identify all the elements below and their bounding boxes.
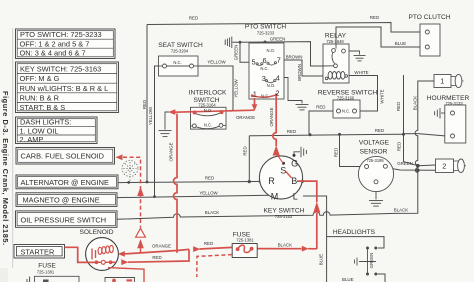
svg-text:RED: RED <box>287 129 296 134</box>
ground left of hourmeter <box>435 108 445 119</box>
svg-text:5: 5 <box>252 58 256 67</box>
node voltage sensor feed <box>338 133 341 136</box>
dotted dash light bulb <box>122 161 138 183</box>
svg-text:N.C.: N.C. <box>204 122 212 127</box>
red fuse element <box>232 244 257 258</box>
wire red key switch B feed <box>297 181 317 202</box>
voltage sensor circle <box>358 156 393 191</box>
svg-text:725-3133: 725-3133 <box>445 101 463 106</box>
svg-text:N.O.: N.O. <box>267 83 276 88</box>
wire GREEN voltage sensor to fuse 2 <box>387 168 435 170</box>
svg-text:725-3204: 725-3204 <box>171 49 189 54</box>
svg-text:ORANGE: ORANGE <box>269 107 274 126</box>
wire YELLOW seat switch right drop <box>198 66 233 111</box>
ground below PTO pin 4 <box>284 78 309 110</box>
legend box PTO SWITCH 725-3233 <box>16 29 116 59</box>
arrow up mid carb line <box>137 187 144 196</box>
svg-text:VOLTAGE: VOLTAGE <box>359 139 390 146</box>
reverse switch box <box>333 100 360 118</box>
svg-text:725-3163: 725-3163 <box>275 214 293 219</box>
PTO switch contacts <box>256 62 276 83</box>
wire headlights bottom hook <box>378 274 386 282</box>
svg-text:N.O.: N.O. <box>204 108 213 113</box>
svg-text:FUSE: FUSE <box>38 262 56 269</box>
svg-text:ORANGE: ORANGE <box>152 244 171 249</box>
svg-text:YELLOW: YELLOW <box>199 191 218 196</box>
wire BLACK fuse 1 drop <box>395 81 434 213</box>
svg-text:725-1381: 725-1381 <box>37 270 55 275</box>
red pin1-pin2 contact arc <box>252 95 276 97</box>
red dashed carb fuel solenoid line <box>123 157 141 253</box>
arrow right before fuse <box>193 246 200 252</box>
red arrows <box>116 104 321 265</box>
svg-text:BROWN: BROWN <box>286 54 303 59</box>
svg-text:BLUE: BLUE <box>319 254 324 266</box>
node lamp top left <box>374 247 377 250</box>
svg-text:RED: RED <box>333 148 338 157</box>
svg-text:ORANGE: ORANGE <box>236 115 255 120</box>
red bits in bottom edge box 2 <box>112 279 132 282</box>
wire GREEN stub to pin 6 <box>264 42 266 53</box>
svg-text:YELLOW: YELLOW <box>234 79 239 98</box>
wire red starter to solenoid <box>65 247 95 262</box>
svg-text:2: 2 <box>442 162 446 171</box>
svg-text:Figure D-3. Engine Crank, Mode: Figure D-3. Engine Crank, Model 2185. <box>1 91 10 246</box>
svg-text:HEADLIGHTS: HEADLIGHTS <box>333 229 376 236</box>
red S-B contact segment <box>286 172 292 178</box>
ground at seat/green bus (hatched) <box>225 37 232 49</box>
svg-text:WHITE: WHITE <box>354 70 368 75</box>
red box lower right of solenoid <box>108 268 144 282</box>
node riser x249 <box>248 180 251 183</box>
PTO pin numbers <box>252 56 281 99</box>
wire BLUE key switch L to headlights <box>303 196 327 282</box>
arrow right after fuse <box>302 246 309 252</box>
wire RED riser R1 <box>404 75 418 166</box>
N.O. / N.C. small labels <box>173 48 350 128</box>
node green junction lower <box>416 168 420 172</box>
svg-text:RED: RED <box>396 102 401 111</box>
wire link node bus to fuse1 drop <box>404 133 418 135</box>
arrow left into solenoid <box>118 251 125 257</box>
svg-text:RED: RED <box>375 128 384 133</box>
svg-text:RUN: B & R: RUN: B & R <box>20 93 59 102</box>
svg-text:BLACK: BLACK <box>205 210 219 215</box>
arrow into carb fuel solenoid <box>116 154 123 160</box>
svg-text:725-3166: 725-3166 <box>337 95 355 100</box>
svg-text:DASH LIGHTS:: DASH LIGHTS: <box>20 118 71 127</box>
svg-text:M: M <box>271 191 279 201</box>
wire BROWN pin 7 to relay coil <box>284 60 323 76</box>
wire stub to fuse 2 upper <box>418 164 436 167</box>
legend box OIL PRESSURE SWITCH <box>16 211 118 227</box>
svg-text:ON: 3 & 4 and 6 & 7: ON: 3 & 4 and 6 & 7 <box>20 48 86 57</box>
relay coil <box>328 72 332 80</box>
svg-text:RED: RED <box>204 241 213 246</box>
wire RED reverse switch to node bus <box>309 111 336 135</box>
svg-text:2. AMP: 2. AMP <box>20 135 44 144</box>
hollow red arrow on carb line <box>136 228 146 237</box>
svg-text:RED: RED <box>142 100 147 109</box>
red wire colour labels <box>152 107 292 259</box>
node green bus pin6 branch <box>264 41 267 44</box>
node left border to alternator line <box>146 181 149 184</box>
arrow up to key switch S <box>273 145 280 155</box>
node seat drop to magneto line <box>153 195 156 198</box>
red interlock N.O. contacts <box>193 93 278 114</box>
node key switch R terminal <box>259 180 262 183</box>
svg-text:725-3233: 725-3233 <box>257 30 275 35</box>
svg-text:725-3164: 725-3164 <box>198 103 216 108</box>
solenoid circle <box>86 238 119 271</box>
svg-text:G: G <box>291 158 298 168</box>
svg-text:RUN w/LIGHTS: B & R & L: RUN w/LIGHTS: B & R & L <box>20 84 109 93</box>
svg-text:6: 6 <box>263 56 267 65</box>
node riser R1 <box>402 133 405 136</box>
ground below voltage sensor <box>369 184 383 206</box>
node green bus pin5 branch <box>239 41 242 44</box>
svg-text:GREEN: GREEN <box>369 253 374 269</box>
svg-text:RED: RED <box>316 105 325 110</box>
svg-text:OFF: M & G: OFF: M & G <box>20 74 60 83</box>
interlock switch box <box>191 107 227 129</box>
svg-text:SOLENOID: SOLENOID <box>79 229 113 236</box>
bottom edge box 2 <box>105 278 135 282</box>
node reverse switch drop <box>309 133 312 136</box>
arrow up on key switch B feed <box>313 201 320 212</box>
wire red solenoid upper right to orange junction <box>125 249 190 254</box>
relay box <box>323 44 349 83</box>
svg-text:BLUE: BLUE <box>395 41 407 46</box>
svg-text:MAGNETO @ ENGINE: MAGNETO @ ENGINE <box>23 196 100 205</box>
fuse 2 <box>436 159 467 173</box>
wire BLACK long bottom bus with hops <box>117 212 395 220</box>
svg-text:S: S <box>280 166 286 176</box>
PTO switch box <box>249 43 284 99</box>
ground at key switch G <box>294 147 306 158</box>
wire red interlock run <box>175 110 255 112</box>
svg-text:BLACK: BLACK <box>278 242 292 247</box>
wire red feed to fuse <box>200 247 233 249</box>
svg-text:R: R <box>268 176 275 186</box>
wire RED riser x249 <box>248 136 250 182</box>
svg-text:4: 4 <box>276 74 280 83</box>
svg-text:OIL PRESSURE SWITCH: OIL PRESSURE SWITCH <box>21 216 107 225</box>
PTO clutch box <box>420 24 440 56</box>
svg-text:INTERLOCK: INTERLOCK <box>189 89 227 96</box>
wire red fuse output <box>257 248 317 250</box>
svg-text:RED: RED <box>189 16 198 21</box>
svg-text:RED: RED <box>243 146 248 155</box>
svg-text:N.C.: N.C. <box>173 60 181 65</box>
red solenoid terminals <box>95 260 113 264</box>
wire YELLOW seat switch left drop <box>155 66 160 197</box>
wire RED feed to voltage sensor <box>340 134 365 166</box>
legend box KEY SWITCH 725-3163 <box>16 62 119 113</box>
ground right of relay <box>350 51 366 61</box>
svg-text:PTO CLUTCH: PTO CLUTCH <box>408 14 450 21</box>
svg-text:BLUE: BLUE <box>342 277 354 282</box>
wire GREEN stub to pin 5 <box>240 42 252 62</box>
headlight lamp symbol <box>355 248 377 274</box>
arrow down from pin 1 <box>252 104 258 110</box>
svg-text:SENSOR: SENSOR <box>360 149 388 156</box>
svg-text:1: 1 <box>253 89 257 98</box>
figure caption "Figure D-3. Engine Crank, Model 2185." <box>1 91 10 246</box>
svg-text:KEY SWITCH: 725-3163: KEY SWITCH: 725-3163 <box>20 65 101 74</box>
svg-text:WHITE: WHITE <box>380 89 385 103</box>
svg-text:N.C.: N.C. <box>261 94 269 99</box>
svg-text:725-1648: 725-1648 <box>326 39 344 44</box>
svg-text:YELLOW: YELLOW <box>207 60 226 65</box>
node lamp bottom right <box>374 273 377 276</box>
key switch circle <box>259 156 302 199</box>
svg-text:RED: RED <box>397 142 402 151</box>
svg-text:BLACK: BLACK <box>413 96 418 110</box>
wire hourmeter lower lead <box>418 134 445 136</box>
svg-text:BROWN: BROWN <box>297 64 302 81</box>
svg-text:1. LOW OIL: 1. LOW OIL <box>20 126 59 135</box>
svg-text:OFF: 1 & 2 and 5 & 7: OFF: 1 & 2 and 5 & 7 <box>20 39 90 48</box>
svg-text:GREEN: GREEN <box>270 36 286 41</box>
svg-text:2: 2 <box>275 88 279 97</box>
seat switch box <box>159 56 199 76</box>
node lamp bottom <box>366 273 369 276</box>
svg-text:RED: RED <box>370 15 379 20</box>
svg-text:N.O.: N.O. <box>266 48 275 53</box>
wire red orange S drop pin2 to key switch <box>273 96 276 147</box>
legend box ALTERNATOR @ ENGINE <box>16 175 118 189</box>
svg-text:GREEN: GREEN <box>233 45 238 61</box>
ground at interlock switch <box>159 112 172 137</box>
svg-text:B: B <box>291 176 297 186</box>
arrow left into interlock <box>168 109 175 115</box>
wire YELLOW magneto line to key switch M <box>117 195 269 197</box>
wire red solenoid bottom output riser <box>113 249 189 262</box>
bottom edge battery stub <box>27 277 30 282</box>
legend box DASH LIGHTS <box>16 117 98 144</box>
fuse 1 <box>434 74 464 87</box>
wire red pin1 stem <box>254 98 256 110</box>
svg-text:1: 1 <box>440 77 444 86</box>
wire GREEN ground bus to PTO switch and relay <box>233 42 324 66</box>
red dashed drop near fuse <box>197 255 232 277</box>
bottom edge box 1 <box>35 276 80 282</box>
svg-text:ORANGE: ORANGE <box>169 142 174 161</box>
starter box <box>14 245 65 259</box>
red thin link arrow base to S terminal <box>277 154 284 163</box>
fuse numbers <box>440 77 446 171</box>
solenoid contact bar <box>94 261 113 263</box>
svg-text:3: 3 <box>262 74 266 83</box>
svg-text:725-1381: 725-1381 <box>236 237 254 242</box>
wire colour labels (horizontal) <box>189 15 413 282</box>
key switch letters <box>268 158 298 201</box>
arrow right from solenoid bottom <box>121 259 128 265</box>
hourmeter box <box>445 105 466 143</box>
wire RED horizontal node bus <box>249 134 403 136</box>
wire YELLOW alternator line to key switch R <box>118 181 260 182</box>
arrow up below hollow arrow (carb line) <box>137 239 144 248</box>
node lamp top <box>366 247 369 250</box>
wire BLUE relay to PTO clutch <box>336 27 425 47</box>
svg-text:L: L <box>293 191 298 201</box>
svg-text:STARTER: STARTER <box>21 248 55 257</box>
wire colour labels (vertical) <box>142 45 418 269</box>
svg-text:N.C.: N.C. <box>260 66 268 71</box>
svg-text:CARB. FUEL SOLENOID: CARB. FUEL SOLENOID <box>21 152 105 161</box>
svg-text:7: 7 <box>277 56 281 65</box>
svg-text:725-3195: 725-3195 <box>366 158 384 163</box>
part numbers <box>37 30 464 274</box>
svg-text:N.C.: N.C. <box>342 109 350 114</box>
legend box CARB. FUEL SOLENOID <box>16 148 115 165</box>
svg-text:YELLOW: YELLOW <box>148 106 153 125</box>
svg-text:PTO SWITCH: 725-3233: PTO SWITCH: 725-3233 <box>20 30 102 39</box>
svg-text:START: B & S: START: B & S <box>20 103 66 112</box>
svg-text:GREEN: GREEN <box>397 161 413 166</box>
svg-text:RED: RED <box>152 255 161 260</box>
scan artifact vertical fold line <box>0 28 13 282</box>
svg-text:RED: RED <box>205 176 214 181</box>
solenoid internal bars and coil <box>91 249 93 260</box>
svg-text:ALTERNATOR @ ENGINE: ALTERNATOR @ ENGINE <box>21 178 109 187</box>
wire top RED bus to PTO clutch <box>147 23 425 33</box>
node bulb stem <box>127 181 130 184</box>
legend box MAGNETO @ ENGINE <box>16 193 117 207</box>
wire red orange drop from interlock <box>174 114 177 253</box>
svg-text:BLACK: BLACK <box>394 208 408 213</box>
node green junction upper <box>416 164 420 168</box>
wire headlights top hook <box>327 237 384 248</box>
wire WHITE relay coil to reverse switch <box>347 76 378 112</box>
wire left border RED drop <box>146 25 148 183</box>
